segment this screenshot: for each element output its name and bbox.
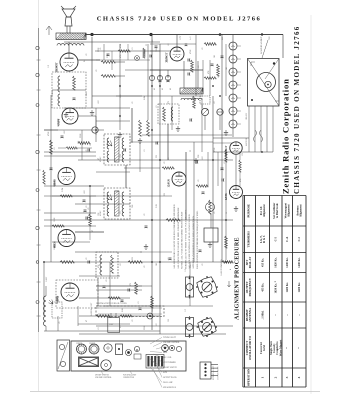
- svg-text:56K: 56K: [132, 204, 134, 208]
- svg-text:CONNECTIONS: CONNECTIONS: [218, 367, 220, 380]
- svg-text:470K: 470K: [48, 131, 50, 136]
- svg-text:.01: .01: [98, 328, 100, 331]
- svg-text:C-3: C-3: [298, 236, 301, 241]
- svg-text:47K: 47K: [98, 264, 100, 268]
- svg-text:.002: .002: [84, 191, 86, 195]
- svg-text:470K: 470K: [214, 147, 216, 152]
- svg-text:WAVEMAGNET ON REAR COVER: WAVEMAGNET ON REAR COVER: [96, 302, 127, 305]
- svg-text:Zenith Radio Corporation: Zenith Radio Corporation: [281, 78, 291, 194]
- svg-text:GANG TRIMMERS: GANG TRIMMERS: [220, 259, 223, 276]
- svg-text:.02: .02: [218, 76, 220, 79]
- svg-text:ON-OFF SWITCH: ON-OFF SWITCH: [163, 367, 178, 369]
- svg-text:Grid: Grid: [263, 345, 266, 351]
- svg-text:1M: 1M: [156, 263, 158, 266]
- svg-text:C-3: C-3: [185, 269, 187, 272]
- svg-text:2.2M: 2.2M: [62, 188, 64, 193]
- svg-text:2: 2: [274, 376, 278, 378]
- svg-text:.05: .05: [86, 258, 88, 261]
- svg-text:CHASSIS 7J20 USED ON MODEL J27: CHASSIS 7J20 USED ON MODEL J2766: [97, 16, 262, 23]
- svg-text:OUTPUT TRANS.: OUTPUT TRANS.: [163, 376, 177, 379]
- svg-text:.05: .05: [202, 48, 204, 51]
- svg-text:100: 100: [168, 319, 170, 322]
- svg-text:CHASSIS 7J20 USED ON MODEL J27: CHASSIS 7J20 USED ON MODEL J2766: [293, 25, 301, 194]
- svg-text:6BE6: 6BE6: [163, 352, 167, 354]
- svg-text:.05: .05: [86, 54, 88, 57]
- svg-text:to Dial Scale: to Dial Scale: [276, 203, 279, 219]
- svg-text:1M: 1M: [214, 55, 216, 58]
- svg-text:.002: .002: [202, 157, 204, 161]
- svg-text:.05: .05: [132, 320, 134, 323]
- svg-text:VOLUME CONTROL: VOLUME CONTROL: [163, 342, 180, 344]
- svg-text:455 Kc.: 455 Kc.: [261, 258, 264, 267]
- svg-text:220K: 220K: [80, 133, 82, 138]
- svg-text:ALIGNMENT PROCEDURE: ALIGNMENT PROCEDURE: [235, 237, 241, 320]
- svg-text:.01: .01: [156, 106, 158, 109]
- svg-text:VOLUME CONTROL: VOLUME CONTROL: [95, 377, 112, 379]
- svg-text:.05: .05: [59, 322, 61, 325]
- svg-text:TUNING SHAFT: TUNING SHAFT: [163, 336, 177, 339]
- svg-text:220K: 220K: [144, 325, 146, 330]
- svg-text:.02: .02: [168, 44, 170, 47]
- svg-text:C-9: C-9: [48, 65, 50, 68]
- svg-text:.01: .01: [168, 258, 170, 261]
- svg-text:.05: .05: [88, 208, 90, 211]
- svg-text:DIAL POINTER AT EXTREME LOW FR: DIAL POINTER AT EXTREME LOW FREQUENCY EN…: [196, 210, 199, 269]
- svg-text:3: 3: [285, 376, 289, 378]
- svg-text:.1 Mfd.: .1 Mfd.: [261, 310, 264, 319]
- svg-text:47: 47: [86, 320, 88, 322]
- svg-text:OSCILLATOR TO: OSCILLATOR TO: [248, 335, 252, 360]
- svg-text:.01: .01: [224, 162, 226, 165]
- svg-text:10: 10: [226, 212, 228, 214]
- svg-text:220: 220: [132, 257, 134, 260]
- svg-text:CONNECTOR: CONNECTOR: [123, 377, 135, 379]
- svg-text:OPERATION: OPERATION: [246, 368, 250, 386]
- svg-text:Alignment: Alignment: [288, 204, 291, 217]
- svg-text:6.8: 6.8: [120, 326, 122, 329]
- svg-text:.05: .05: [152, 40, 154, 42]
- svg-text:40: 40: [162, 88, 164, 90]
- svg-text:2.2M: 2.2M: [144, 52, 146, 57]
- svg-text:1620 Kc. *: 1620 Kc. *: [275, 280, 278, 293]
- svg-text:22K: 22K: [198, 154, 200, 158]
- svg-text:455 Kc.: 455 Kc.: [261, 282, 264, 291]
- svg-text:OSC: OSC: [56, 295, 58, 300]
- svg-text:6BA6: 6BA6: [163, 346, 167, 349]
- svg-text:.05: .05: [144, 266, 146, 269]
- svg-text:LOOP: LOOP: [46, 276, 48, 282]
- svg-text:Alignment: Alignment: [263, 204, 266, 217]
- svg-text:.002: .002: [64, 131, 66, 134]
- svg-text:DET AMP: DET AMP: [57, 118, 60, 127]
- svg-text:.01: .01: [132, 48, 134, 51]
- svg-text:33: 33: [190, 150, 192, 152]
- svg-text:CONV: CONV: [54, 244, 56, 250]
- svg-text:TERMINALS TO B- WITH VTVM. LIN: TERMINALS TO B- WITH VTVM. LINE VOLTAGE …: [184, 209, 187, 269]
- svg-text:GANG: GANG: [151, 306, 154, 312]
- svg-text:47: 47: [92, 230, 94, 232]
- svg-text:7J20: 7J20: [269, 36, 271, 40]
- svg-text:ANT. TRIMMER: ANT. TRIMMER: [163, 361, 177, 364]
- svg-text:--: --: [275, 314, 278, 316]
- svg-text:DIAL LAMP: DIAL LAMP: [163, 381, 173, 384]
- svg-text:1400 Kc.: 1400 Kc.: [286, 282, 289, 293]
- svg-text:Alignment: Alignment: [300, 204, 303, 217]
- svg-text:PURPOSE: PURPOSE: [246, 204, 250, 218]
- svg-text:Wave Magnet: Wave Magnet: [279, 340, 282, 357]
- svg-text:220: 220: [164, 193, 166, 196]
- svg-text:C-A: C-A: [286, 237, 289, 242]
- svg-text:1: 1: [260, 376, 264, 378]
- svg-text:DIAL AT: DIAL AT: [248, 257, 252, 269]
- svg-text:WAVEMAGNET: WAVEMAGNET: [260, 36, 263, 54]
- svg-text:1620 Kc.: 1620 Kc.: [275, 257, 278, 268]
- svg-text:455KC: 455KC: [100, 156, 102, 162]
- svg-text:.05: .05: [132, 102, 134, 105]
- svg-text:.01: .01: [54, 148, 56, 151]
- svg-text:47K: 47K: [120, 54, 122, 58]
- svg-text:1400 Kc.: 1400 Kc.: [298, 282, 301, 293]
- svg-text:470K: 470K: [120, 43, 122, 48]
- svg-text:ALL CAPACITOR VALUES IN MFD. U: ALL CAPACITOR VALUES IN MFD. UNLESS OTHE…: [177, 207, 180, 269]
- svg-text:C-5: C-5: [185, 309, 187, 312]
- svg-text:47K: 47K: [240, 178, 242, 182]
- svg-text:WAVE MAGNET: WAVE MAGNET: [123, 374, 137, 377]
- svg-text:EXTERNAL ANT.: EXTERNAL ANT.: [212, 365, 215, 380]
- svg-text:1500: 1500: [120, 154, 122, 158]
- svg-text:OSC. COIL: OSC. COIL: [163, 357, 172, 359]
- svg-text:25Z6GT: 25Z6GT: [76, 343, 82, 345]
- svg-text:.05: .05: [198, 180, 200, 183]
- svg-text:455KC: 455KC: [100, 210, 102, 216]
- svg-text:.05: .05: [214, 212, 216, 215]
- svg-text:.02: .02: [156, 324, 158, 327]
- svg-text:100K: 100K: [156, 47, 158, 52]
- svg-text:--: --: [298, 314, 301, 316]
- svg-text:.01: .01: [120, 212, 122, 215]
- svg-text:25L6GT: 25L6GT: [89, 343, 95, 345]
- svg-text:40: 40: [154, 88, 156, 90]
- svg-text:22K: 22K: [202, 104, 204, 108]
- svg-text:6.8M: 6.8M: [144, 96, 146, 101]
- svg-text:.05: .05: [202, 264, 204, 267]
- svg-text:.01: .01: [138, 302, 140, 305]
- svg-text:.002: .002: [98, 101, 100, 105]
- svg-text:.05: .05: [96, 70, 98, 73]
- svg-text:47K: 47K: [208, 70, 210, 74]
- svg-text:.1: .1: [190, 99, 192, 101]
- svg-text:.05: .05: [90, 144, 92, 147]
- svg-text:.05: .05: [164, 162, 166, 165]
- svg-text:ANTENNA: ANTENNA: [248, 307, 252, 322]
- svg-text:4: 4: [297, 376, 301, 378]
- svg-text:.05: .05: [198, 66, 200, 69]
- svg-text:470K: 470K: [190, 49, 192, 54]
- svg-text:100K: 100K: [54, 217, 56, 222]
- svg-text:6AT6: 6AT6: [225, 193, 228, 200]
- svg-text:.02: .02: [120, 264, 122, 267]
- svg-text:.05: .05: [144, 214, 146, 217]
- svg-text:SW: SW: [222, 37, 224, 40]
- svg-text:150: 150: [242, 153, 244, 156]
- svg-text:NOTED. ALL VOLTAGES MEASURED F: NOTED. ALL VOLTAGES MEASURED FROM SOCKET: [181, 211, 184, 269]
- svg-text:FREQUENCY: FREQUENCY: [248, 277, 252, 296]
- svg-text:220K: 220K: [98, 47, 100, 52]
- svg-text:TONE: TONE: [52, 90, 54, 96]
- svg-text:.05: .05: [100, 48, 102, 50]
- svg-text:R & S: R & S: [263, 235, 266, 243]
- svg-text:TRIMMERS: TRIMMERS: [246, 231, 250, 248]
- svg-text:12AU6: 12AU6: [167, 179, 170, 188]
- svg-text:47: 47: [98, 158, 100, 160]
- svg-text:.01: .01: [144, 150, 146, 153]
- svg-text:1M: 1M: [226, 67, 228, 70]
- svg-text:RECT: RECT: [166, 56, 168, 62]
- svg-text:40: 40: [170, 88, 172, 90]
- svg-text:470: 470: [130, 283, 132, 286]
- svg-text:.05: .05: [106, 280, 108, 283]
- svg-text:SWITCH: SWITCH: [246, 138, 248, 146]
- svg-text:A.C. VOLUME CONTROL AT MAX. GA: A.C. VOLUME CONTROL AT MAX. GANG CLOSED.: [188, 213, 191, 269]
- svg-text:OUTPUT: OUTPUT: [56, 63, 58, 72]
- svg-text:ALL RESISTORS 1/2 WATT UNLESS: ALL RESISTORS 1/2 WATT UNLESS OTHERWISE …: [173, 204, 176, 269]
- svg-text:12K: 12K: [98, 212, 100, 216]
- svg-text:C-5: C-5: [275, 236, 278, 241]
- svg-text:--: --: [286, 314, 289, 316]
- svg-text:1400 Kc.: 1400 Kc.: [286, 257, 289, 268]
- svg-text:.05: .05: [168, 158, 170, 161]
- svg-text:220: 220: [156, 155, 158, 158]
- svg-text:.02: .02: [214, 102, 216, 105]
- svg-text:6AT6: 6AT6: [163, 371, 167, 374]
- svg-text:SPEAKER PLUG: SPEAKER PLUG: [163, 386, 177, 389]
- svg-text:2.2K: 2.2K: [156, 204, 158, 209]
- svg-text:1400 Kc.: 1400 Kc.: [298, 257, 301, 268]
- svg-text:ASTERISK (*) DENOTES AVC BUS C: ASTERISK (*) DENOTES AVC BUS CONNECTION.: [192, 215, 195, 269]
- svg-text:.05: .05: [86, 206, 88, 209]
- svg-text:110V: 110V: [109, 324, 114, 326]
- svg-text:WAVEMAGNET: WAVEMAGNET: [90, 302, 93, 316]
- svg-text:33K: 33K: [86, 92, 88, 96]
- svg-text:ON-OFF: ON-OFF: [246, 112, 248, 120]
- svg-text:.05: .05: [86, 150, 88, 153]
- svg-text:22: 22: [146, 44, 148, 46]
- svg-text:117V: 117V: [180, 35, 182, 40]
- svg-text:A.C.: A.C.: [189, 36, 192, 40]
- svg-text:470: 470: [168, 101, 170, 104]
- svg-text:10K: 10K: [120, 94, 122, 98]
